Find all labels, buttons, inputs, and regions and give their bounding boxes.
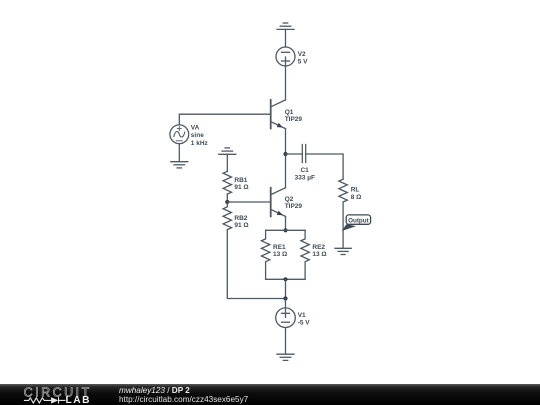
svg-text:8 Ω: 8 Ω: [351, 194, 362, 201]
label C1: [295, 167, 315, 182]
svg-text:5 V: 5 V: [298, 59, 308, 66]
svg-text:-5 V: -5 V: [298, 319, 311, 326]
label RE1: [273, 244, 287, 258]
svg-text:Q1: Q1: [285, 109, 294, 116]
resistor RB1: [223, 171, 231, 202]
voltage source VA (sine): [170, 125, 189, 144]
label RE2: [312, 244, 326, 258]
resistor RL: [339, 179, 347, 248]
wire node to C1: [286, 153, 303, 155]
resistor RE2: [301, 230, 309, 279]
svg-text:1 kHz: 1 kHz: [191, 140, 209, 147]
ground (below RL): [335, 248, 351, 254]
svg-text:Q2: Q2: [285, 196, 294, 203]
svg-text:C1: C1: [300, 167, 309, 174]
wire Q2 collector up to node: [285, 154, 287, 188]
ground (above RB1): [219, 148, 236, 172]
CircuitLab logo: [0, 363, 120, 405]
label RL: [351, 187, 362, 201]
voltage source V2: [276, 47, 295, 66]
svg-text:sine: sine: [191, 132, 204, 139]
node (Q2 emitter / RE1 / RE2): [283, 228, 287, 232]
svg-text:91 Ω: 91 Ω: [234, 222, 248, 229]
output flag: [342, 215, 371, 231]
resistor RE1: [261, 230, 269, 279]
label Q2: [285, 196, 303, 210]
wire V1 to ground: [285, 328, 287, 355]
svg-text:91 Ω: 91 Ω: [234, 184, 248, 191]
svg-text:V2: V2: [298, 51, 306, 58]
svg-text:VA: VA: [191, 125, 200, 132]
wire RB2 bottom rail: [227, 230, 285, 299]
transistor Q1: [271, 100, 286, 129]
svg-text:13 Ω: 13 Ω: [312, 251, 326, 258]
label RB2: [234, 215, 248, 229]
wire junction to Q2 base: [227, 201, 270, 203]
node (RB1/RB2/Q2 base junction): [225, 200, 229, 204]
svg-text:RB1: RB1: [234, 177, 247, 184]
svg-text:V1: V1: [298, 312, 306, 319]
ground (below VA): [171, 162, 188, 168]
wire Q1 emitter down: [285, 129, 287, 154]
node (RE bottom): [283, 277, 287, 281]
svg-text:Output: Output: [348, 218, 370, 225]
svg-text:LAB: LAB: [66, 395, 91, 405]
node (Q1 emitter / Q2 collector / C1): [283, 152, 287, 156]
label Q1: [285, 109, 303, 123]
svg-text:333 µF: 333 µF: [295, 174, 315, 181]
wire node to V1: [285, 299, 287, 309]
node (V1 top / RB2 rail): [283, 296, 287, 300]
transistor Q2: [271, 188, 286, 217]
resistor RB2: [223, 202, 231, 230]
svg-text:RL: RL: [351, 187, 360, 194]
wire VA to Q1 base: [179, 114, 270, 125]
label V2: [298, 51, 308, 66]
label RB1: [234, 177, 248, 191]
svg-text:RE2: RE2: [312, 244, 325, 251]
label V1: [298, 312, 311, 326]
svg-text:TIP29: TIP29: [285, 116, 303, 123]
svg-text:RE1: RE1: [273, 244, 286, 251]
svg-text:TIP29: TIP29: [285, 203, 303, 210]
label VA: [191, 125, 209, 147]
ground (below V1): [277, 354, 294, 360]
wire RE bottoms join: [266, 278, 306, 280]
wire V2 to Q1 collector: [285, 66, 287, 100]
svg-text:13 Ω: 13 Ω: [273, 251, 287, 258]
wire VA to ground: [178, 144, 180, 162]
capacitor C1: [302, 145, 305, 163]
ground (top, above V2): [277, 23, 294, 47]
wire Q2 emitter down: [285, 216, 287, 230]
wire C1 to RL: [306, 154, 343, 179]
wire emitter node to RE1/RE2 tops: [266, 229, 306, 231]
wire down to V1 node: [285, 279, 287, 298]
voltage source V1: [276, 308, 296, 328]
svg-text:RB2: RB2: [234, 215, 247, 222]
footer bar: [0, 384, 540, 405]
